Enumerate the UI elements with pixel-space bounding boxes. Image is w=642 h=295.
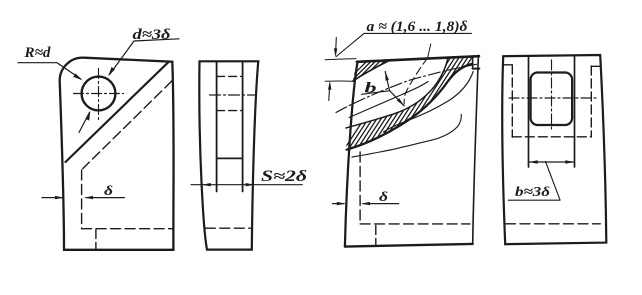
b3d leader bbox=[546, 162, 561, 200]
fig1 side slot left wall bbox=[216, 62, 218, 192]
label d≈3δ leader bbox=[110, 39, 180, 75]
svg-text:S≈2δ: S≈2δ bbox=[261, 168, 307, 185]
a dimension up arrow bbox=[328, 85, 331, 101]
fig1 side centerline bbox=[210, 94, 257, 96]
fig2 side view outline bbox=[502, 55, 606, 244]
fig1 hole circle bbox=[82, 77, 116, 111]
fig2 delta dimension right arrow bbox=[363, 203, 399, 205]
fig1 delta dimension left arrow bbox=[42, 197, 62, 199]
fig2 band upper thin arc bbox=[346, 58, 448, 128]
a dimension down arrow bbox=[335, 38, 338, 54]
fig1 hidden vertical dashed bbox=[81, 170, 83, 229]
fig1 side slot bottom bbox=[217, 157, 243, 159]
fig2 hidden arc D1 solid tip bbox=[428, 44, 431, 58]
fig1 hole centerline horizontal bbox=[74, 93, 124, 95]
fig2 hidden vertical dashed 2 bbox=[375, 226, 377, 247]
svg-text:δ: δ bbox=[104, 184, 113, 199]
fig2 lower thin arc T4 bbox=[352, 115, 461, 158]
fig2 side centerline vertical bbox=[551, 60, 553, 131]
fig1 front view outline bbox=[60, 58, 174, 250]
S dimension line bbox=[191, 184, 302, 186]
fig2 band hatch bbox=[336, 54, 487, 162]
svg-text:δ: δ bbox=[379, 190, 388, 205]
fig2 side hidden box left bbox=[511, 65, 513, 137]
label b underline bbox=[362, 91, 390, 95]
fig2 front right edge bbox=[473, 55, 479, 244]
fig2 front left edge bbox=[345, 62, 358, 247]
fig2 step corner horizontal bbox=[473, 68, 480, 70]
fig2 hidden horizontal dashed bbox=[360, 223, 470, 225]
fig1 side view outline bbox=[199, 61, 258, 249]
fig2 side channel left wall bbox=[528, 56, 530, 167]
fig1 side hole hidden bottom bbox=[217, 110, 243, 112]
b3d dimension line bbox=[529, 161, 575, 163]
fig2 front bottom edge bbox=[345, 244, 473, 247]
fig2 hidden arc D1 dashed bbox=[404, 58, 427, 104]
svg-text:R≈d: R≈d bbox=[23, 45, 51, 61]
fig1 diagonal corner edge bbox=[66, 62, 169, 162]
fig2 side channel right wall bbox=[574, 56, 576, 167]
label a underline bbox=[364, 32, 472, 34]
fig2 side hidden box right bbox=[590, 66, 592, 137]
fig2 step corner vertical bbox=[472, 57, 474, 69]
fig2 channel centerline arc bbox=[336, 64, 477, 112]
fig1 hidden horizontal dashed bbox=[82, 228, 173, 230]
wedge arc extension line bbox=[325, 80, 353, 82]
fig2 wedge arc bbox=[353, 61, 389, 81]
fig1 side bottom hidden dashed bbox=[205, 227, 251, 229]
fig2 hidden vertical dashed bbox=[359, 152, 361, 224]
fig2 lower thin arc T3 bbox=[384, 72, 474, 133]
fig1 hidden diagonal dashed bbox=[83, 81, 172, 169]
top edge extension line bbox=[325, 59, 356, 60]
fig1 hidden vertical dashed 2 bbox=[95, 230, 97, 250]
diameter arrow lower-left bbox=[79, 112, 90, 132]
fig2 side hidden stub right bbox=[591, 65, 600, 67]
fig2 side hidden box bottom bbox=[512, 136, 591, 138]
fig2 side centerline horizontal bbox=[509, 97, 597, 99]
label R≈d leader bbox=[18, 63, 81, 79]
svg-text:b≈3δ: b≈3δ bbox=[515, 185, 550, 200]
svg-text:a ≈ (1,6 ... 1,8)δ: a ≈ (1,6 ... 1,8)δ bbox=[367, 19, 468, 35]
label a leader bbox=[336, 33, 364, 56]
fig2 band lower thick arc bbox=[347, 64, 473, 150]
fig1 side hole hidden top bbox=[217, 75, 243, 77]
fig2 delta dimension left arrow bbox=[333, 203, 345, 205]
fig2 side square hole bbox=[531, 73, 573, 126]
fig1 side slot right wall bbox=[242, 62, 244, 192]
label b≈3δ underline bbox=[508, 199, 560, 201]
fig2 channel inner thin line bbox=[349, 82, 428, 118]
b dimension double arrow bbox=[385, 72, 404, 106]
fig2 front top edge bbox=[357, 56, 479, 62]
fig1 delta dimension right arrow bbox=[86, 197, 125, 199]
fig2 side bottom hidden dashed bbox=[506, 223, 601, 225]
fig1 hole centerline vertical bbox=[98, 69, 100, 121]
fig2 side hidden stub left bbox=[504, 64, 513, 66]
fig2 wedge hatch bbox=[333, 50, 409, 95]
